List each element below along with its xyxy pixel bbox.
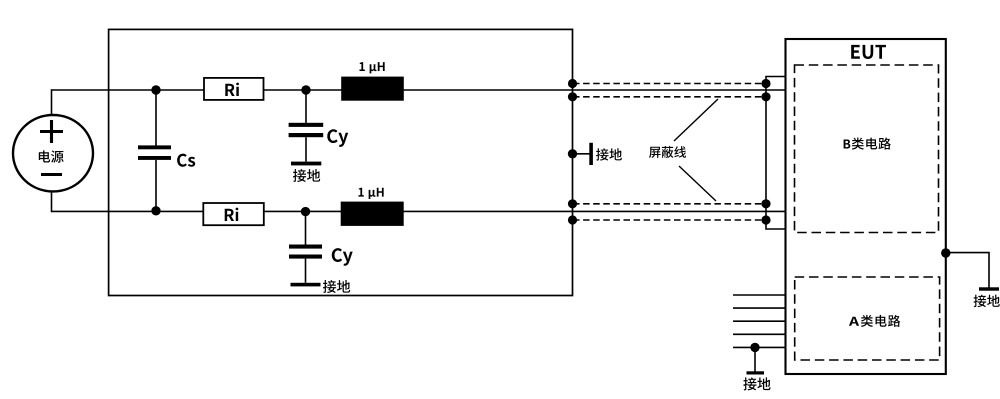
pointer line to top shield — [674, 99, 718, 141]
wire: Cy lower lead to ground (bottom row) — [305, 259, 307, 283]
wire: ground tap lead — [573, 153, 590, 155]
ground bar (bottom Cy) — [291, 283, 321, 287]
node: shield bottom-right upper — [761, 199, 770, 208]
inductor 1 uH (bottom) — [341, 202, 403, 225]
shield dashed line (bottom cable, upper) — [573, 203, 766, 205]
node: junction bottom (Cy/bottom wire) — [301, 207, 310, 216]
wire: source negative lead — [51, 191, 53, 212]
wire: Cs lower lead — [155, 160, 157, 212]
node: shield top-left lower — [568, 92, 577, 101]
shield dashed line (top cable, lower) — [573, 96, 766, 98]
EUT box — [786, 39, 946, 374]
ground bar (cable shield) — [589, 143, 593, 165]
label Cy (top) — [327, 129, 348, 147]
wire: A-circuit port line 3 — [733, 320, 786, 322]
label 接地 (bottom Cy) — [323, 280, 350, 293]
capacitor Cy (top) — [289, 123, 324, 137]
minus terminal mark — [41, 173, 62, 176]
wire: A-circuit port line 4 — [733, 333, 786, 335]
coupling/filter network box — [109, 29, 573, 295]
label Cy (bottom) — [332, 248, 353, 266]
pointer line to bottom shield — [679, 166, 716, 201]
wire: EUT ground lead — [946, 253, 989, 288]
node: junction bottom-left (Cs/bottom wire) — [151, 206, 160, 215]
label Cs — [177, 154, 195, 167]
wire: bottom conductor from source to EUT — [52, 210, 786, 212]
shield dashed line (bottom cable, lower) — [573, 219, 766, 221]
label Ri (top) — [225, 83, 239, 96]
circuit class A dashed box — [795, 277, 940, 360]
wire: A-circuit port line 2 — [733, 307, 786, 309]
ground bar (top Cy) — [291, 162, 321, 166]
wire: shield bond bus to EUT — [766, 77, 786, 230]
label B类电路 — [844, 138, 891, 150]
label 接地 (A-circuit) — [743, 377, 770, 390]
node: shield top-left upper — [568, 79, 577, 88]
wire: Cs upper lead — [155, 90, 157, 146]
shield dashed line (top cable, upper) — [573, 83, 766, 85]
wire: Cy lower lead to ground (top row) — [305, 137, 307, 161]
capacitor Cs — [138, 145, 171, 160]
node: shield top-right upper — [761, 79, 770, 88]
label 接地 (cable shield) — [596, 148, 622, 160]
node: shield bottom-left lower — [568, 215, 577, 224]
ground bar (A-circuit) — [747, 371, 765, 374]
label EUT — [851, 45, 886, 59]
node: shield top-right lower — [761, 92, 770, 101]
label 接地 (top Cy) — [293, 169, 320, 182]
label A类电路 — [849, 315, 900, 327]
node: EUT chassis ground tap — [941, 248, 950, 257]
label 电源 — [39, 150, 64, 162]
wire: source positive lead — [51, 89, 53, 116]
label 1 uH (bottom) — [358, 188, 383, 199]
label 接地 (EUT right) — [974, 295, 1000, 308]
resistor Ri (top) — [204, 78, 264, 100]
capacitor Cy (bottom) — [289, 245, 322, 259]
circuit class B dashed box — [795, 65, 939, 233]
wire: Cy upper lead (top row) — [305, 90, 307, 123]
node: A-circuit ground tap — [750, 343, 759, 352]
label 屏蔽线 (shielded cable) — [649, 146, 686, 158]
wire: Cy upper lead (bottom row) — [305, 211, 307, 244]
wire: A-circuit port line 5 — [733, 346, 786, 348]
wire: A-circuit port line 1 — [733, 294, 786, 296]
node: junction top (Cy/top wire) — [301, 85, 310, 94]
power source (AC/DC source circle) — [13, 115, 93, 191]
resistor Ri (bottom) — [203, 203, 263, 225]
label 1 uH (top) — [359, 62, 384, 73]
wire: top conductor from source to EUT — [52, 89, 786, 91]
label Ri (bottom) — [225, 208, 239, 221]
node: junction top-left (Cs/top wire) — [151, 85, 160, 94]
wire: A-circuit ground lead — [754, 347, 756, 371]
node: shield bottom-left upper — [568, 199, 577, 208]
inductor 1 uH (top) — [342, 77, 404, 100]
plus terminal mark — [40, 120, 63, 143]
node: shield ground tap — [568, 149, 577, 158]
node: shield bottom-right lower — [761, 215, 770, 224]
ground bar (EUT right) — [979, 287, 999, 290]
